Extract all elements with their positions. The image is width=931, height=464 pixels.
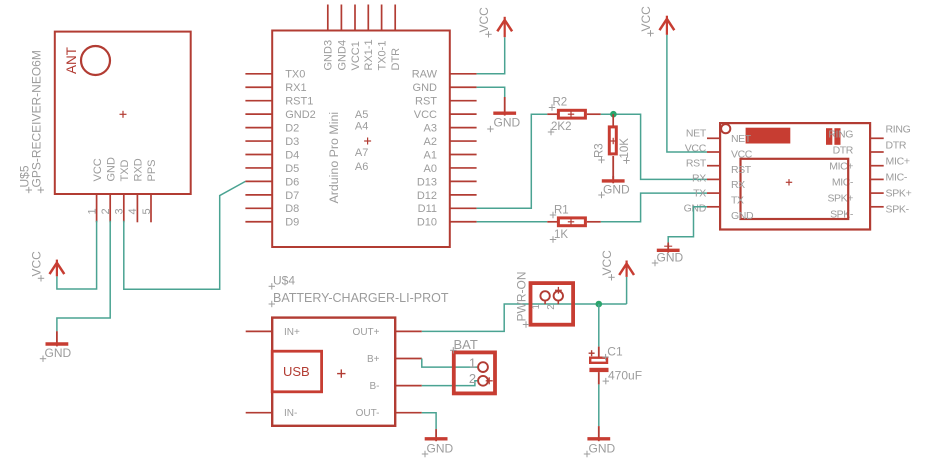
svg-text:TX0-1: TX0-1 (377, 41, 389, 71)
svg-text:GND: GND (413, 82, 438, 94)
svg-text:RXD: RXD (133, 158, 145, 181)
svg-text:RX: RX (692, 173, 706, 185)
svg-text:D12: D12 (417, 190, 437, 202)
svg-text:A2: A2 (424, 136, 437, 148)
svg-text:D5: D5 (285, 163, 299, 175)
svg-text:GND: GND (105, 157, 117, 182)
svg-text:2: 2 (100, 208, 112, 214)
svg-text:VCC: VCC (30, 251, 44, 277)
svg-text:BATTERY-CHARGER-LI-PROT: BATTERY-CHARGER-LI-PROT (273, 291, 449, 305)
svg-text:D6: D6 (285, 176, 299, 188)
svg-text:1: 1 (86, 208, 98, 214)
svg-text:2: 2 (546, 304, 557, 310)
svg-text:A6: A6 (355, 161, 368, 173)
svg-text:RX: RX (731, 179, 745, 191)
svg-text:MIC-: MIC- (832, 177, 854, 189)
svg-text:D9: D9 (285, 217, 299, 229)
svg-text:D11: D11 (418, 203, 437, 215)
svg-text:D7: D7 (285, 190, 299, 202)
svg-text:2K2: 2K2 (551, 121, 571, 133)
svg-text:GND: GND (589, 442, 616, 456)
svg-text:MIC-: MIC- (886, 172, 908, 184)
svg-text:ANT: ANT (64, 47, 79, 74)
svg-text:A1: A1 (424, 149, 437, 161)
svg-text:B+: B+ (367, 354, 380, 365)
svg-text:BAT: BAT (454, 337, 478, 352)
svg-text:VCC: VCC (600, 250, 614, 276)
svg-text:5: 5 (141, 208, 153, 214)
svg-text:DTR: DTR (833, 145, 854, 157)
svg-text:MIC+: MIC+ (829, 161, 853, 173)
svg-text:NET: NET (686, 128, 707, 140)
svg-text:TXD: TXD (119, 159, 131, 181)
svg-text:1: 1 (531, 303, 542, 309)
svg-text:RST: RST (415, 96, 437, 108)
svg-text:RST: RST (731, 164, 752, 176)
svg-text:SPK+: SPK+ (886, 188, 912, 200)
svg-text:Arduino Pro Mini: Arduino Pro Mini (327, 112, 341, 204)
svg-text:3: 3 (114, 208, 126, 214)
svg-text:D3: D3 (285, 136, 299, 148)
svg-text:GND: GND (657, 251, 684, 265)
svg-text:DTR: DTR (886, 140, 907, 152)
svg-text:RAW: RAW (412, 69, 438, 81)
svg-text:GPS-RECEIVER-NEO6M: GPS-RECEIVER-NEO6M (30, 50, 44, 187)
svg-text:IN-: IN- (284, 408, 297, 419)
svg-text:VCC: VCC (731, 148, 753, 160)
svg-text:GND: GND (45, 346, 72, 360)
svg-text:10K: 10K (619, 138, 631, 159)
svg-text:C1: C1 (607, 345, 623, 359)
svg-text:SPK+: SPK+ (827, 193, 853, 205)
svg-text:VCC: VCC (92, 158, 104, 181)
svg-text:D13: D13 (417, 176, 437, 188)
svg-text:VCC: VCC (639, 6, 653, 32)
svg-text:D8: D8 (285, 203, 299, 215)
svg-text:R2: R2 (553, 97, 568, 109)
svg-text:RX1: RX1 (285, 82, 306, 94)
svg-text:PWR-ON: PWR-ON (515, 272, 529, 322)
svg-text:2: 2 (469, 371, 476, 386)
svg-text:MIC+: MIC+ (886, 156, 910, 168)
svg-text:A3: A3 (424, 123, 437, 135)
svg-text:GND2: GND2 (285, 109, 316, 121)
svg-text:RING: RING (886, 124, 911, 136)
svg-text:B-: B- (370, 381, 380, 392)
svg-text:R1: R1 (554, 204, 569, 216)
svg-text:GND: GND (731, 210, 754, 222)
svg-text:470uF: 470uF (608, 369, 642, 383)
svg-text:GND4: GND4 (336, 40, 348, 71)
svg-text:VCC1: VCC1 (350, 41, 362, 70)
svg-text:GND: GND (427, 442, 454, 456)
svg-text:SPK-: SPK- (886, 204, 910, 216)
svg-text:D2: D2 (285, 123, 299, 135)
svg-text:IN+: IN+ (284, 327, 300, 338)
svg-text:U$4: U$4 (273, 274, 295, 288)
svg-text:D4: D4 (285, 149, 299, 161)
svg-text:DTR: DTR (390, 48, 402, 71)
svg-text:TX0: TX0 (285, 69, 305, 81)
svg-text:GND: GND (494, 115, 521, 129)
svg-text:1: 1 (469, 355, 476, 370)
svg-text:VCC: VCC (477, 7, 491, 33)
svg-text:A4: A4 (355, 121, 368, 133)
svg-text:PPS: PPS (146, 159, 158, 181)
svg-text:4: 4 (127, 208, 139, 214)
svg-text:TX: TX (731, 195, 744, 207)
svg-text:TX: TX (693, 188, 706, 200)
svg-text:OUT+: OUT+ (353, 327, 380, 338)
svg-text:A5: A5 (355, 109, 368, 121)
svg-text:R3: R3 (594, 143, 606, 158)
svg-text:RING: RING (828, 129, 853, 141)
svg-text:GND3: GND3 (323, 40, 335, 71)
svg-text:USB: USB (283, 364, 310, 379)
svg-text:A7: A7 (355, 147, 368, 159)
svg-text:RST1: RST1 (285, 96, 313, 108)
svg-text:RX1-1: RX1-1 (363, 39, 375, 70)
svg-text:D10: D10 (417, 217, 437, 229)
svg-text:RST: RST (686, 158, 707, 170)
svg-text:NET: NET (731, 133, 752, 145)
svg-text:GND: GND (603, 183, 630, 197)
svg-text:GND: GND (684, 203, 707, 215)
svg-text:A0: A0 (424, 163, 437, 175)
svg-text:OUT-: OUT- (356, 408, 380, 419)
svg-text:VCC: VCC (414, 109, 437, 121)
